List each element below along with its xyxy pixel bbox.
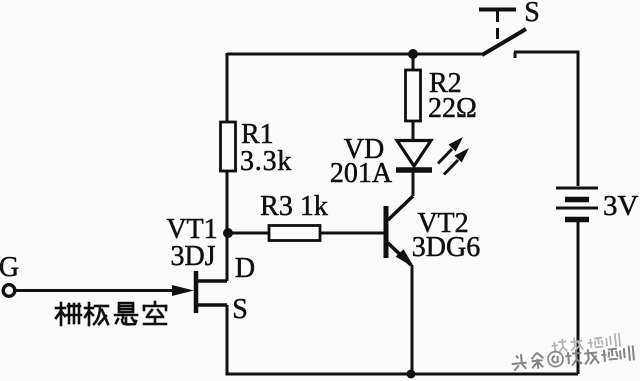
wire LED to collector <box>412 172 415 196</box>
transistor VT2 collector lead <box>388 196 413 220</box>
node C top junction <box>408 49 418 59</box>
svg-text:D: D <box>235 253 255 284</box>
LED light arrow 2 shaft <box>444 160 458 175</box>
wire left vertical (R1 to drain) <box>226 171 229 281</box>
switch right contact tick <box>514 52 517 58</box>
resistor R3 <box>269 226 320 241</box>
svg-text:G: G <box>0 252 19 283</box>
LED light arrow 1 shaft <box>438 149 452 164</box>
transistor VT2 emitter lead <box>388 243 411 265</box>
wire node to R3 <box>228 232 269 235</box>
LED light arrow 1 head <box>449 137 464 152</box>
svg-text:3DG6: 3DG6 <box>412 232 480 263</box>
char 极 <box>85 303 108 325</box>
node B bottom junction <box>407 370 416 379</box>
transistor VT1 drain lead <box>196 279 227 283</box>
terminal G circle <box>3 285 15 297</box>
wire right vertical upper (switch to battery) <box>514 52 578 186</box>
transistor VT2 emitter arrowhead <box>397 250 414 267</box>
wire R3 to VT2 base <box>320 232 384 235</box>
battery plate short thick 2 <box>565 217 589 223</box>
svg-text:3DJ: 3DJ <box>170 241 215 272</box>
transistor VT2 base bar <box>384 206 389 258</box>
gate arrowhead <box>172 285 194 296</box>
wire top horizontal <box>227 53 482 56</box>
switch S stem dashed <box>496 11 499 46</box>
node A junction R3/R1 <box>223 228 233 238</box>
wire emitter down <box>411 265 414 374</box>
char 空 <box>144 302 166 324</box>
svg-text:3V: 3V <box>603 190 639 222</box>
char 悬 <box>115 303 137 324</box>
battery plate short thick 1 <box>565 197 589 203</box>
battery plate long top <box>556 187 598 190</box>
svg-text:S: S <box>232 294 248 325</box>
battery plate long 2 <box>556 207 598 210</box>
wire source down to bottom <box>226 305 229 374</box>
resistor R2 <box>406 70 421 121</box>
watermark 头条@技成培训 <box>511 344 634 371</box>
wire R2 to LED <box>412 121 415 141</box>
LED VD triangle <box>397 141 431 167</box>
wire left vertical upper (top to R1) <box>226 53 229 122</box>
char 栅 <box>56 303 81 325</box>
svg-text:22Ω: 22Ω <box>428 93 477 124</box>
svg-text:201A: 201A <box>330 158 393 189</box>
svg-text:R3 1k: R3 1k <box>260 191 328 222</box>
wire node C to R2 <box>412 54 415 70</box>
label 栅极悬空 hand-drawn <box>56 302 166 325</box>
transistor VT1 channel bar <box>194 271 199 313</box>
wire battery bottom down <box>577 222 580 374</box>
LED light arrow 2 head <box>455 148 470 163</box>
switch S blade <box>482 29 526 55</box>
svg-text:S: S <box>524 0 540 28</box>
transistor VT1 source lead <box>196 303 227 307</box>
wire gate <box>16 289 181 292</box>
svg-text:3.3k: 3.3k <box>240 146 292 177</box>
resistor R1 <box>221 122 236 171</box>
wire bottom horizontal <box>226 373 579 376</box>
watermark faint 技成培训 <box>551 333 620 354</box>
LED VD cathode bar <box>396 167 432 173</box>
switch S button bar <box>479 8 516 12</box>
